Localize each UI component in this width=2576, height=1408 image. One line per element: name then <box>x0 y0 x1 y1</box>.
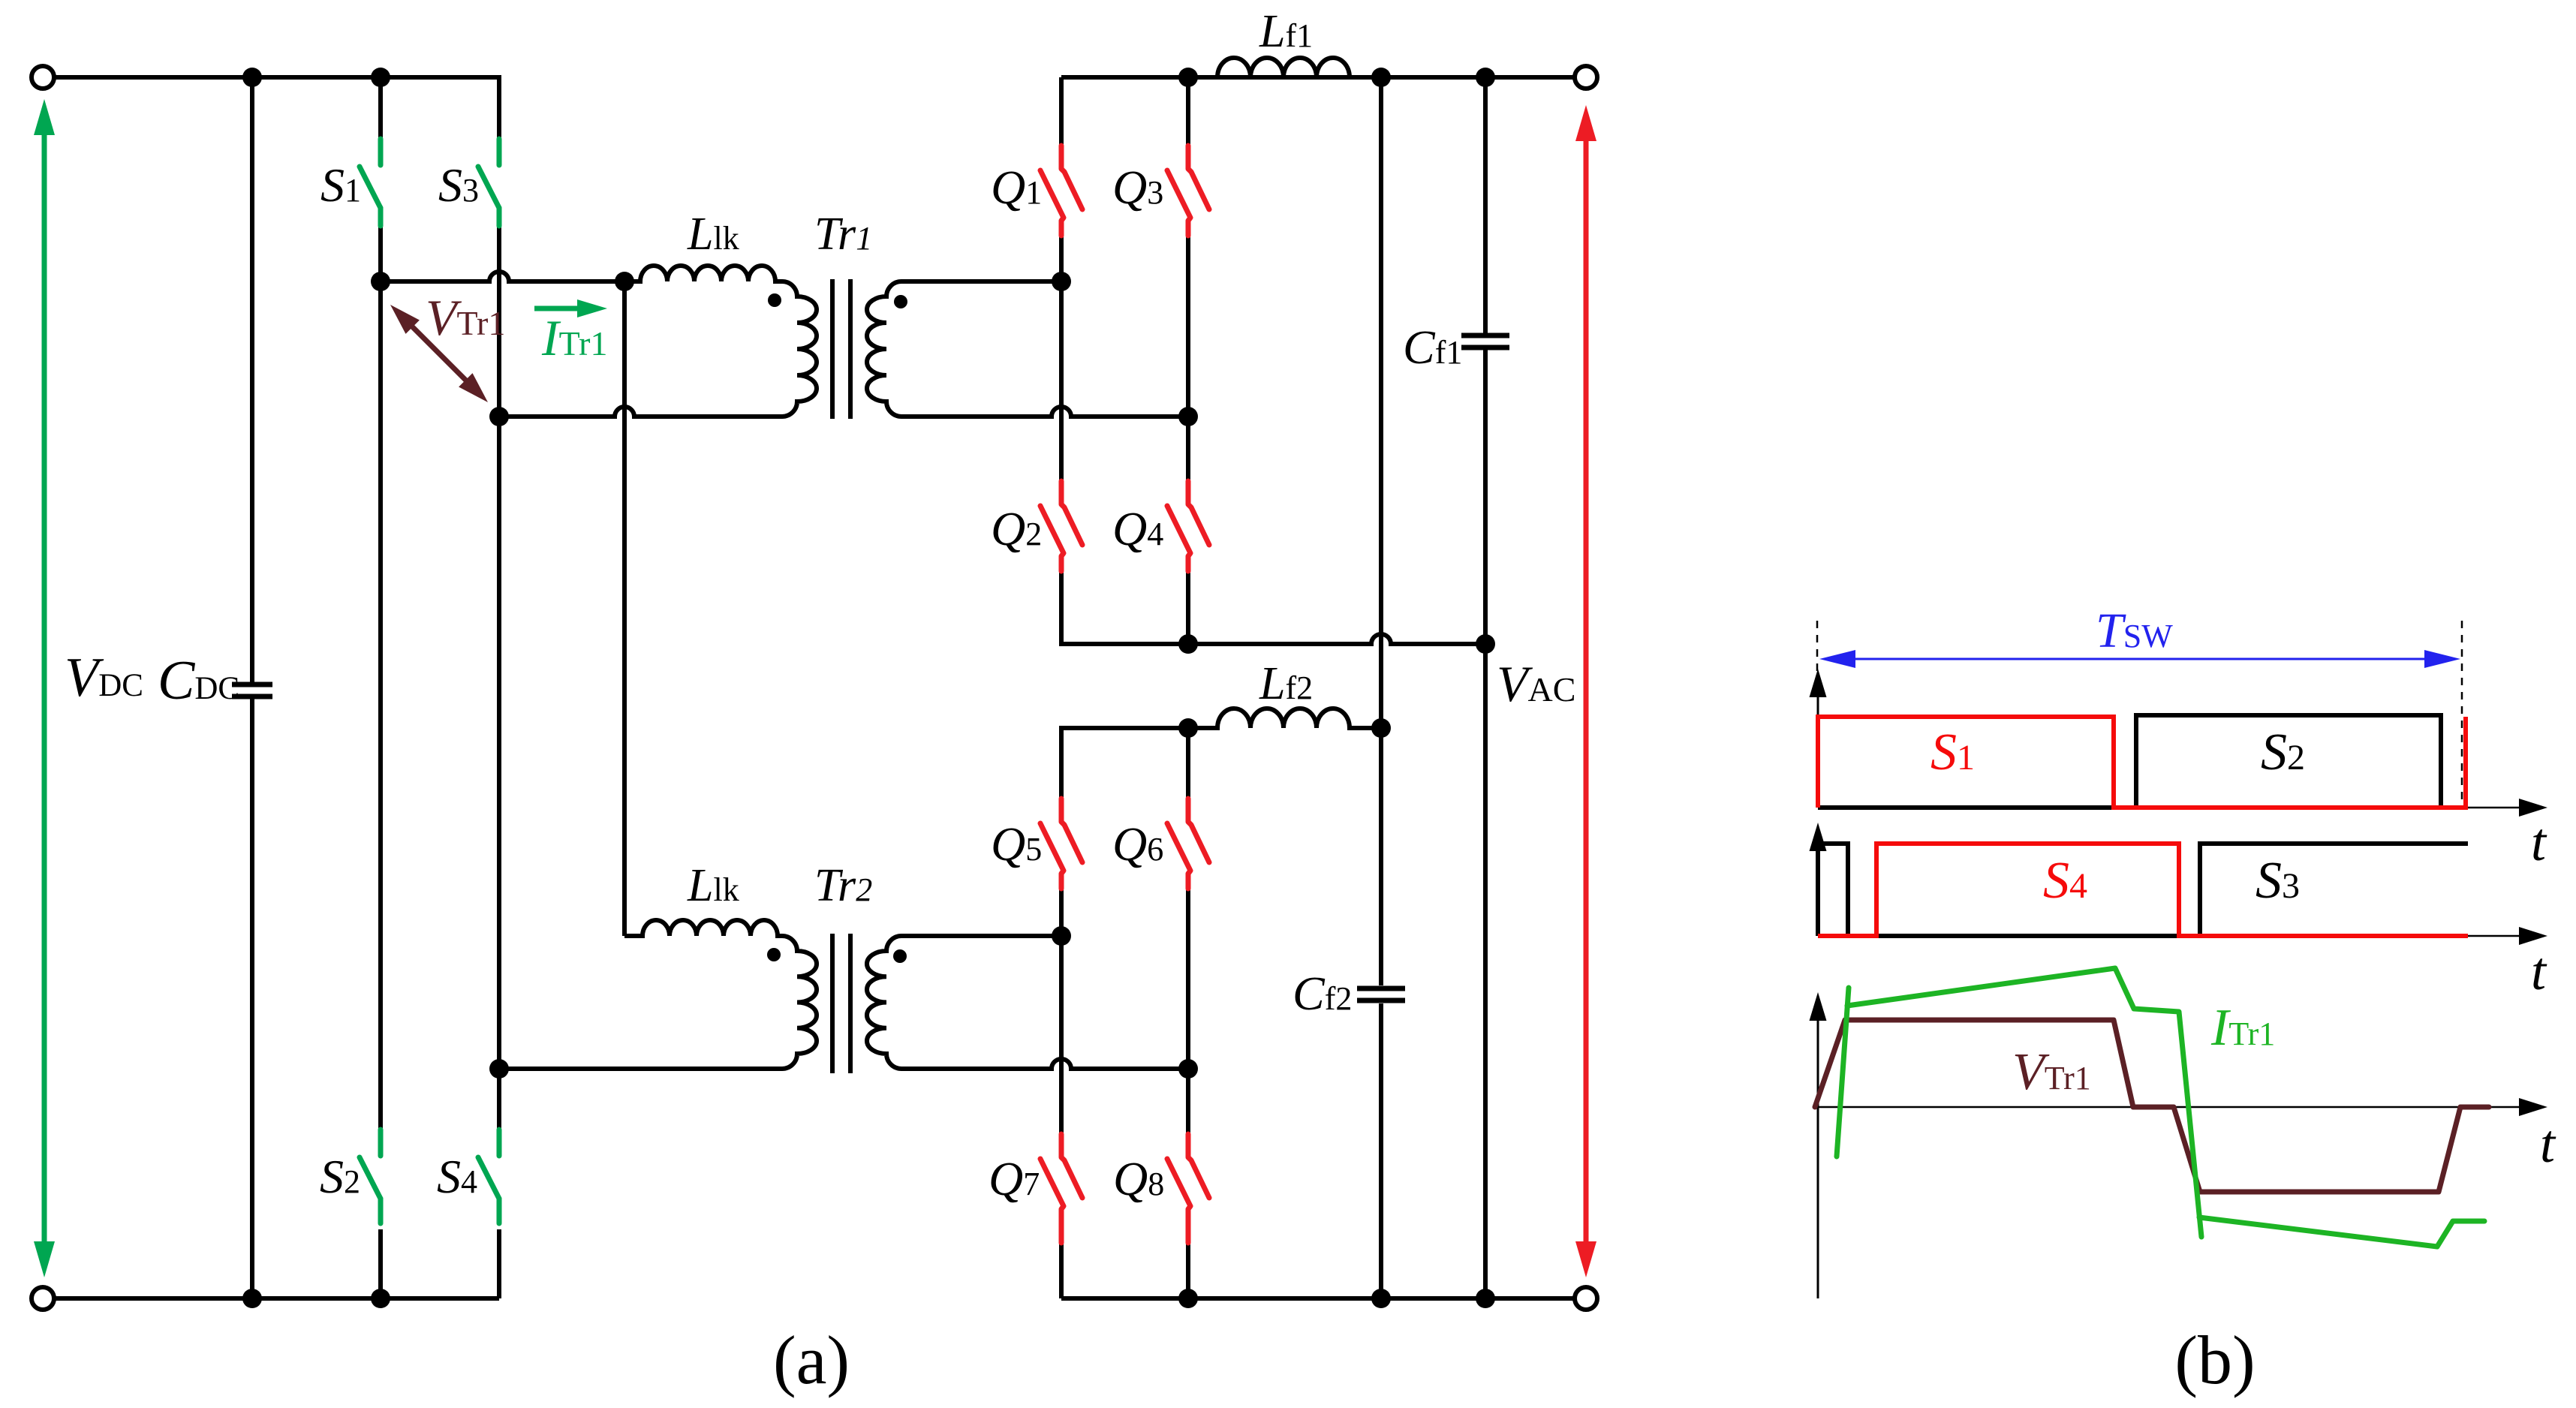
wire bottom rail right <box>1061 1296 1575 1301</box>
dashed guide left <box>1816 621 1819 671</box>
wire Q1 column top <box>1059 77 1064 146</box>
wire CDC column upper <box>250 77 254 684</box>
switch Q8 <box>1167 1134 1209 1243</box>
switch S1 <box>360 139 381 226</box>
wire output column lower <box>1379 1003 1383 1298</box>
wire Q8 bottom stub <box>1186 1243 1190 1298</box>
arrow VDC <box>34 99 55 1277</box>
dashed guide right <box>2461 621 2463 808</box>
axis row2 y <box>1810 823 1827 936</box>
junction node (1979,103) <box>1476 68 1495 87</box>
terminal top-left <box>32 66 54 89</box>
terminal bottom-right <box>1575 1287 1597 1310</box>
wire Q3-Q4 mid <box>1186 236 1190 481</box>
switch Q5 <box>1040 799 1082 889</box>
transformer Tr1 core bars <box>832 279 850 419</box>
wire bridge mid top (S1 leg to Llk) <box>381 272 624 281</box>
waveform S3 (black) <box>1818 844 2468 936</box>
junction node (507,1730) <box>371 1289 390 1308</box>
waveform S4 (red) <box>1818 844 2468 936</box>
svg-text:t: t <box>2531 812 2547 872</box>
inductor Llk (Tr2) and Tr2 primary winding <box>499 920 817 1069</box>
switch Q4 <box>1167 481 1209 571</box>
switch Q7 <box>1040 1134 1082 1243</box>
junction node (336,103) <box>242 68 262 87</box>
junction node (1583,1424) <box>1178 1059 1198 1079</box>
switch Q1 <box>1040 146 1082 236</box>
capacitor CDC <box>232 684 272 696</box>
wire Tr2 feed column <box>622 281 627 936</box>
transformer Tr1 secondary winding <box>867 281 1188 417</box>
svg-text:t: t <box>2531 941 2547 1001</box>
switch Q2 <box>1040 481 1082 571</box>
wire top rail left + S3 top stub <box>54 77 499 139</box>
junction node (1583,858) <box>1178 634 1198 654</box>
wire Cf1 column upper <box>1483 77 1488 335</box>
inductor Lf2 <box>1188 709 1381 728</box>
transformer Tr2 core bars <box>832 934 850 1073</box>
polarity dot Tr1 primary <box>768 293 781 307</box>
arrow TSW <box>1819 650 2460 668</box>
wire bottom rail left <box>54 1296 499 1301</box>
axis row3 x <box>1818 1098 2547 1116</box>
junction node (1979,858) <box>1476 634 1495 654</box>
svg-text:t: t <box>2540 1114 2556 1174</box>
junction node (665,1424) <box>489 1059 509 1079</box>
arrow ITr1 <box>534 299 607 317</box>
axis row1 x <box>1818 799 2547 817</box>
terminal bottom-left <box>32 1287 54 1310</box>
switch S2 <box>360 1130 381 1223</box>
wire Q7 bottom stub <box>1059 1243 1064 1298</box>
junction node (1840,1730) <box>1371 1289 1391 1308</box>
junction node (1979,1730) <box>1476 1289 1495 1308</box>
wire S2 bottom stub <box>378 1229 383 1298</box>
wire CDC column lower <box>250 696 254 1298</box>
waveform VTr1 (maroon) <box>1815 1020 2489 1192</box>
junction node (1414,375) <box>1052 272 1071 291</box>
svg-text:(a): (a) <box>773 1322 850 1398</box>
waveform ITr1 (green) <box>1847 968 2201 1237</box>
wire top rail right <box>1061 75 1575 80</box>
wire Q5-Q7 mid <box>1059 889 1064 1134</box>
axis row2 x <box>1818 927 2547 945</box>
waveform S1 (red) <box>1818 717 2466 808</box>
svg-text:(b): (b) <box>2174 1322 2255 1398</box>
transformer Tr2 secondary winding <box>867 936 1188 1069</box>
inductor Llk (Tr1) and Tr1 primary winding <box>499 266 817 417</box>
wire Q6-Q8 mid <box>1186 889 1190 1134</box>
wire S1-S2 column middle <box>378 226 383 1130</box>
waveform ITr1 tail (green) <box>2199 1217 2484 1247</box>
junction node (1414,1247) <box>1052 926 1071 946</box>
wire output column upper (Lf outputs) <box>1379 77 1383 985</box>
wire S4 bottom stub <box>497 1229 501 1298</box>
junction node (1583,970) <box>1178 718 1198 738</box>
junction node (1583,103) <box>1178 68 1198 87</box>
switch S4 <box>478 1130 499 1223</box>
wire Q4 bottom stub <box>1186 571 1190 644</box>
axis row3 y <box>1810 992 1827 1298</box>
capacitor Cf2 <box>1357 988 1405 1000</box>
junction node (336,1730) <box>242 1289 262 1308</box>
polarity dot Tr1 secondary <box>894 295 907 308</box>
junction node (665,555) <box>489 407 509 426</box>
switch Q3 <box>1167 146 1209 236</box>
waveform ITr1 spike (green) <box>1837 988 1849 1157</box>
polarity dot Tr2 secondary <box>893 949 907 963</box>
switch Q6 <box>1167 799 1209 889</box>
capacitor Cf1 <box>1461 335 1509 347</box>
terminal top-right <box>1575 66 1597 89</box>
arrow VTr1 <box>390 305 488 402</box>
junction node (832,375) <box>615 272 634 291</box>
inductor Lf1 <box>1188 58 1381 77</box>
junction node (1840,103) <box>1371 68 1391 87</box>
axis row1 y <box>1810 669 1827 808</box>
wire Q2 bottom + bridge1 bottom rail <box>1061 571 1485 644</box>
junction node (1840,970) <box>1371 718 1391 738</box>
wire Cf1 column lower <box>1483 348 1488 1298</box>
wire Q6 column top <box>1186 728 1190 799</box>
waveform S2 (black) <box>1818 715 2441 808</box>
wire S1 top stub <box>378 77 383 139</box>
wire S3-S4 column middle <box>497 226 501 1130</box>
junction node (507,103) <box>371 68 390 87</box>
arrow VAC <box>1575 105 1596 1277</box>
wire Q1-Q2 mid <box>1059 236 1064 481</box>
switch S3 <box>478 139 499 226</box>
polarity dot Tr2 primary <box>767 948 781 961</box>
junction node (507,375) <box>371 272 390 291</box>
wire Q5 top + bridge2 top rail <box>1061 728 1188 799</box>
junction node (1583,1730) <box>1178 1289 1198 1308</box>
junction node (1583,555) <box>1178 407 1198 426</box>
wire Q3 column top <box>1186 77 1190 146</box>
